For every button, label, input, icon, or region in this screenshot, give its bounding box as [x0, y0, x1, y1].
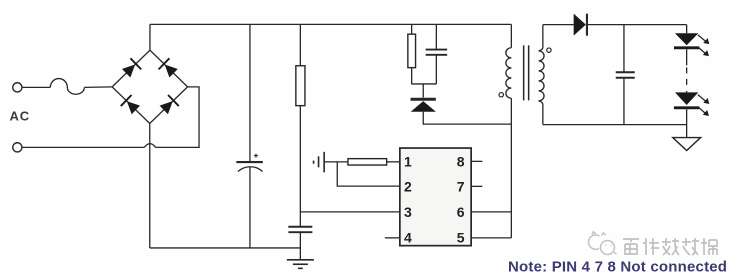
svg-text:Note: PIN 4 7 8 Not connected: Note: PIN 4 7 8 Not connected — [508, 259, 727, 276]
AC terminal bottom — [13, 143, 22, 152]
wire pin1 — [387, 161, 400, 163]
watermark text 硬件攻城狮 (drawn strokes) — [623, 238, 717, 255]
fuse F1 — [50, 79, 84, 95]
diode D6 (output) — [574, 14, 587, 36]
diode D2 — [158, 58, 179, 79]
node secondary phase dot — [547, 48, 551, 52]
wire output rail — [588, 24, 687, 26]
watermark logo — [588, 232, 616, 255]
LED LED1 — [674, 25, 709, 66]
wire — [156, 87, 200, 148]
wire — [411, 83, 436, 85]
AC terminal top — [13, 83, 22, 92]
ground — [287, 260, 314, 269]
pin 7 stub — [471, 185, 482, 187]
wire bridge bottom to rail — [149, 123, 151, 248]
capacitor C2 — [288, 227, 312, 260]
transformer T1 secondary — [539, 25, 545, 125]
diode D4 — [158, 94, 179, 115]
ground (open triangle) — [673, 138, 701, 151]
svg-text:4: 4 — [404, 230, 412, 246]
resistor R3 — [348, 159, 387, 165]
resistor R2 (snubber) — [408, 24, 416, 84]
wire secondary bottom rail — [543, 124, 687, 126]
pin 8 stub — [471, 160, 482, 162]
wire dashed (more LEDs) — [686, 67, 688, 90]
transformer core — [524, 45, 529, 100]
diode D5 (clamp) — [411, 84, 436, 124]
transformer T1 primary — [506, 24, 511, 124]
wire hop — [144, 144, 155, 148]
wire pin2 — [337, 162, 400, 186]
LED LED2 — [674, 91, 709, 138]
op-amp U1 (controller IC) — [400, 148, 471, 246]
node primary phase dot — [499, 93, 503, 97]
wire — [324, 161, 348, 163]
svg-text:1: 1 — [404, 154, 412, 170]
wire bottom rail — [150, 247, 300, 249]
pin numbers U1 — [404, 154, 465, 246]
svg-text:AC: AC — [10, 109, 31, 124]
wire top rail — [150, 23, 511, 25]
wire pin 5 — [471, 237, 511, 239]
bridge rectifier frame — [112, 50, 187, 123]
wire pin 6 — [471, 211, 511, 213]
diode D3 — [120, 94, 141, 115]
pin 4 stub — [385, 237, 400, 239]
svg-text:8: 8 — [457, 154, 465, 170]
wire secondary top — [543, 24, 574, 26]
capacitor C1 — [236, 24, 263, 248]
capacitor C4 (snubber) — [426, 24, 448, 84]
wire riser — [510, 124, 512, 238]
ground (rotated, pin1 network) — [314, 152, 325, 173]
diode D1 — [121, 58, 142, 79]
wire bridge top to rail — [149, 24, 151, 50]
svg-text:5: 5 — [457, 230, 465, 246]
wire pin3 — [300, 211, 400, 213]
wire — [22, 86, 50, 88]
svg-text:3: 3 — [404, 204, 412, 220]
svg-text:7: 7 — [457, 179, 465, 195]
capacitor C3 (output) — [616, 25, 635, 125]
svg-text:6: 6 — [457, 204, 465, 220]
wire — [84, 86, 112, 89]
resistor R1 — [296, 24, 305, 226]
wire — [22, 146, 144, 148]
wire — [423, 123, 512, 125]
svg-text:2: 2 — [404, 179, 412, 195]
